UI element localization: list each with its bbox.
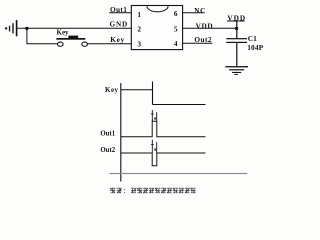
svg-text:Out2: Out2 xyxy=(100,147,115,154)
svg-text:1: 1 xyxy=(137,10,141,19)
svg-text:NC: NC xyxy=(194,6,206,15)
svg-text:6: 6 xyxy=(174,9,178,18)
svg-text:GND: GND xyxy=(110,20,129,29)
svg-text:Key: Key xyxy=(105,86,119,94)
svg-text:2: 2 xyxy=(137,25,141,34)
svg-text:Key: Key xyxy=(57,28,70,36)
svg-text:3: 3 xyxy=(137,40,141,49)
svg-text:Out1: Out1 xyxy=(110,5,127,14)
svg-text:VDD: VDD xyxy=(196,22,214,31)
svg-text:Out2: Out2 xyxy=(194,35,212,44)
svg-text:4: 4 xyxy=(174,39,178,48)
svg-text:Key: Key xyxy=(110,35,125,44)
svg-text:5: 5 xyxy=(174,24,178,33)
svg-text:104P: 104P xyxy=(247,43,264,52)
svg-text:Out1: Out1 xyxy=(100,131,115,138)
